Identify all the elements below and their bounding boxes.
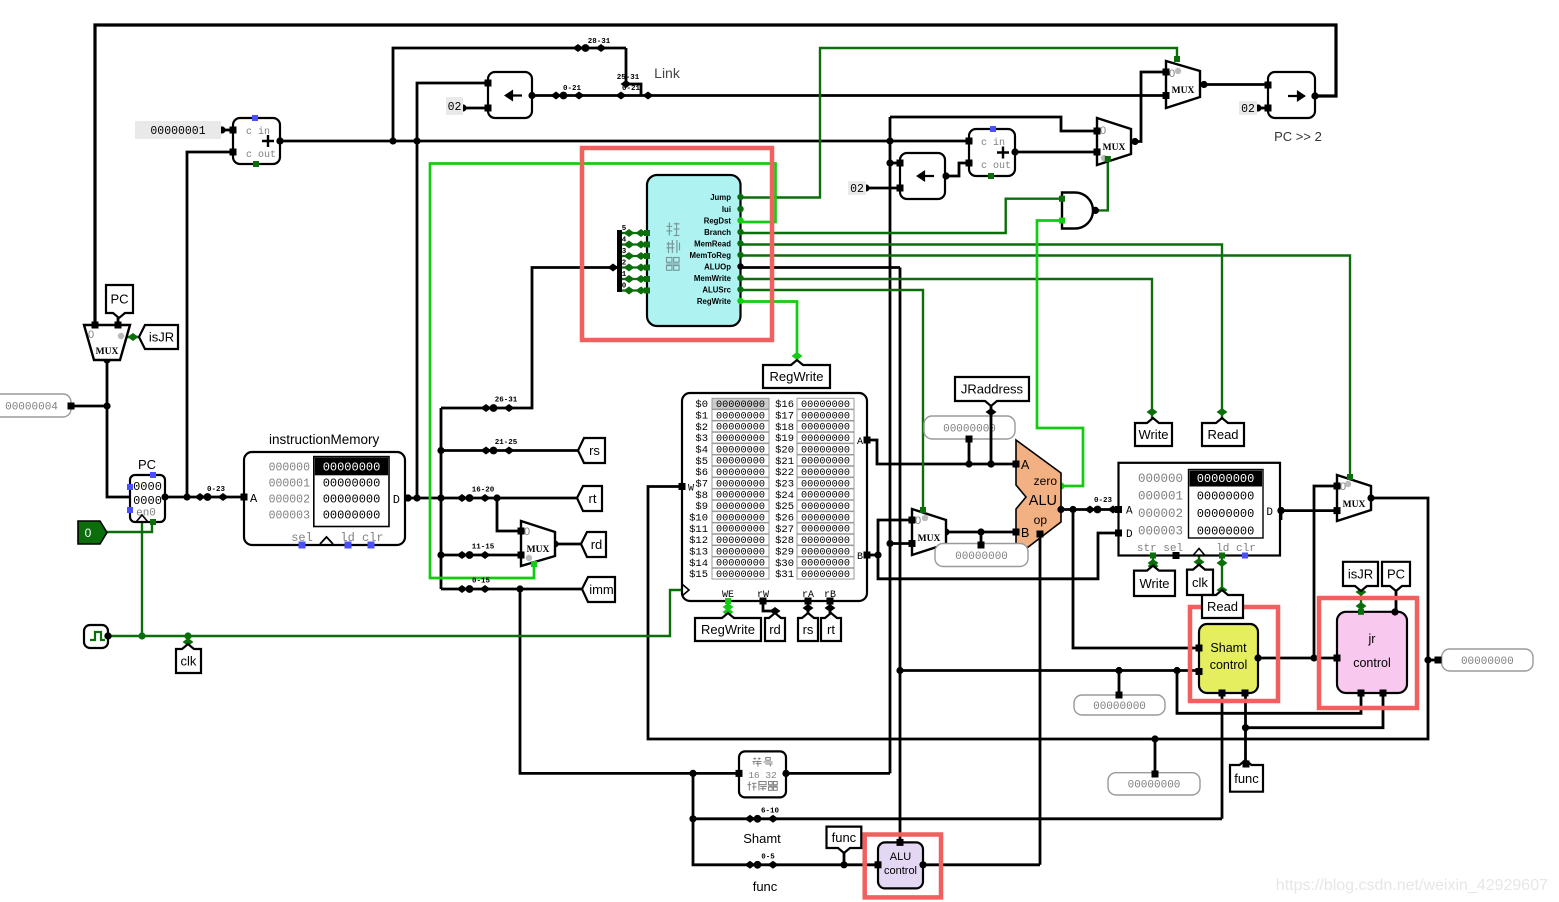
svg-text:rd: rd	[769, 622, 781, 637]
svg-text:control: control	[884, 865, 917, 877]
svg-text:B: B	[1021, 526, 1029, 540]
svg-text:$9: $9	[695, 501, 708, 513]
svg-text:c in: c in	[981, 137, 1005, 149]
svg-text:imm: imm	[589, 582, 614, 597]
svg-text:000000: 000000	[1138, 472, 1183, 486]
svg-text:21-25: 21-25	[495, 439, 518, 447]
svg-text:$24: $24	[775, 490, 794, 502]
svg-text:000003: 000003	[1138, 525, 1183, 539]
svg-text:00000000: 00000000	[1197, 507, 1255, 521]
svg-text:0-15: 0-15	[472, 578, 491, 586]
svg-text:https://blog.csdn.net/weixin_4: https://blog.csdn.net/weixin_42929607	[1276, 877, 1548, 894]
svg-text:Write: Write	[1139, 576, 1169, 591]
svg-text:W: W	[688, 484, 694, 495]
svg-text:$12: $12	[689, 535, 708, 547]
svg-text:000001: 000001	[269, 478, 311, 491]
svg-text:000000: 000000	[269, 462, 311, 475]
svg-text:$26: $26	[775, 513, 794, 525]
svg-text:0: 0	[524, 526, 530, 538]
svg-text:c in: c in	[246, 126, 270, 138]
svg-text:00000004: 00000004	[5, 401, 58, 413]
svg-text:0: 0	[1169, 68, 1175, 80]
svg-text:MUX: MUX	[527, 545, 550, 555]
svg-text:rd: rd	[591, 537, 603, 552]
svg-text:MUX: MUX	[1172, 86, 1195, 96]
svg-text:op: op	[1034, 513, 1048, 527]
svg-text:00000000: 00000000	[943, 423, 996, 435]
svg-text:MemWrite: MemWrite	[694, 274, 732, 283]
svg-text:ALU: ALU	[1029, 493, 1057, 509]
svg-text:$20: $20	[775, 445, 794, 457]
svg-text:00000000: 00000000	[1197, 472, 1255, 486]
svg-text:$27: $27	[775, 524, 794, 536]
svg-text:6-10: 6-10	[761, 808, 780, 816]
svg-text:RegWrite: RegWrite	[770, 369, 824, 384]
svg-text:25-31: 25-31	[617, 74, 640, 82]
svg-text:00000000: 00000000	[1461, 656, 1514, 668]
svg-text:$30: $30	[775, 558, 794, 570]
svg-text:0: 0	[915, 515, 921, 527]
svg-text:c out: c out	[981, 161, 1011, 172]
svg-text:isJR: isJR	[149, 330, 174, 345]
svg-text:0000: 0000	[133, 480, 162, 494]
svg-text:02: 02	[850, 183, 864, 196]
svg-text:0-23: 0-23	[207, 486, 226, 494]
svg-text:$3: $3	[695, 433, 708, 445]
svg-text:000002: 000002	[269, 494, 311, 507]
svg-text:B: B	[857, 552, 863, 563]
svg-text:PC: PC	[138, 457, 156, 472]
svg-text:$8: $8	[695, 490, 708, 502]
svg-text:02: 02	[448, 101, 462, 114]
svg-text:$6: $6	[695, 467, 708, 479]
svg-text:ALUSrc: ALUSrc	[702, 286, 731, 295]
svg-text:PC: PC	[1387, 567, 1405, 582]
svg-text:$25: $25	[775, 501, 794, 513]
svg-text:jr: jr	[1368, 632, 1376, 646]
svg-text:c out: c out	[246, 150, 276, 161]
svg-text:Jump: Jump	[710, 193, 731, 202]
svg-text:00000000: 00000000	[716, 570, 765, 581]
svg-text:$15: $15	[689, 569, 708, 581]
svg-text:$1: $1	[695, 411, 708, 423]
svg-text:control: control	[1353, 656, 1391, 670]
svg-text:$2: $2	[695, 422, 708, 434]
svg-text:0-5: 0-5	[761, 854, 775, 862]
svg-text:$14: $14	[689, 558, 708, 570]
svg-text:16 32: 16 32	[748, 770, 777, 781]
svg-text:000002: 000002	[1138, 507, 1183, 521]
svg-text:JRaddress: JRaddress	[961, 382, 1024, 397]
svg-text:clk: clk	[181, 654, 197, 669]
svg-text:0000: 0000	[133, 494, 162, 508]
svg-text:MUX: MUX	[918, 534, 941, 544]
svg-text:RegWrite: RegWrite	[697, 297, 732, 306]
svg-text:28-31: 28-31	[588, 38, 611, 46]
svg-text:Branch: Branch	[704, 228, 731, 237]
svg-text:4: 4	[622, 237, 627, 245]
svg-text:00000000: 00000000	[1197, 490, 1255, 504]
svg-text:clk: clk	[1192, 575, 1208, 590]
svg-text:RegWrite: RegWrite	[701, 622, 755, 637]
svg-text:func: func	[832, 830, 857, 845]
svg-text:$7: $7	[695, 479, 708, 491]
svg-text:$23: $23	[775, 479, 794, 491]
svg-text:Shamt: Shamt	[743, 831, 781, 846]
svg-text:rs: rs	[589, 443, 600, 458]
svg-text:$29: $29	[775, 546, 794, 558]
svg-text:26-31: 26-31	[495, 397, 518, 405]
svg-text:3: 3	[622, 248, 627, 256]
svg-text:00000000: 00000000	[801, 570, 850, 581]
svg-text:rs: rs	[803, 622, 814, 637]
svg-text:$18: $18	[775, 422, 794, 434]
svg-text:$4: $4	[695, 445, 708, 457]
svg-text:A: A	[1126, 506, 1133, 518]
svg-text:$17: $17	[775, 411, 794, 423]
svg-text:MUX: MUX	[1343, 500, 1366, 510]
svg-text:$28: $28	[775, 535, 794, 547]
svg-text:MemRead: MemRead	[694, 240, 731, 249]
svg-text:D: D	[1266, 507, 1273, 519]
svg-text:00000000: 00000000	[323, 477, 381, 491]
svg-text:1: 1	[622, 271, 627, 279]
svg-text:2: 2	[622, 260, 627, 268]
svg-text:zero: zero	[1034, 474, 1058, 488]
svg-text:$10: $10	[689, 513, 708, 525]
svg-text:Read: Read	[1207, 427, 1238, 442]
svg-text:D: D	[393, 493, 400, 507]
svg-text:00000000: 00000000	[323, 509, 381, 523]
svg-text:02: 02	[1241, 103, 1255, 116]
svg-text:000001: 000001	[1138, 490, 1183, 504]
svg-text:ALU: ALU	[890, 851, 911, 863]
svg-text:MUX: MUX	[1103, 143, 1126, 153]
svg-text:D: D	[1126, 529, 1133, 541]
svg-text:$0: $0	[695, 399, 708, 411]
svg-text:ALUOp: ALUOp	[704, 263, 731, 272]
svg-text:func: func	[753, 879, 778, 894]
svg-text:0: 0	[88, 329, 94, 341]
svg-text:00000000: 00000000	[1197, 525, 1255, 539]
svg-text:00000000: 00000000	[323, 461, 381, 475]
svg-text:$21: $21	[775, 456, 794, 468]
svg-text:MUX: MUX	[96, 347, 119, 357]
svg-text:$13: $13	[689, 546, 708, 558]
svg-text:rt: rt	[827, 622, 835, 637]
svg-text:00000000: 00000000	[1093, 701, 1146, 713]
svg-text:instructionMemory: instructionMemory	[269, 432, 380, 447]
svg-text:$31: $31	[775, 569, 794, 581]
svg-text:00000000: 00000000	[323, 493, 381, 507]
svg-text:00000000: 00000000	[1128, 780, 1181, 792]
svg-text:$19: $19	[775, 433, 794, 445]
svg-text:Write: Write	[1138, 427, 1168, 442]
svg-text:11-15: 11-15	[472, 544, 495, 552]
svg-text:Shamt: Shamt	[1210, 641, 1247, 655]
svg-text:0: 0	[622, 283, 627, 291]
svg-text:A: A	[1021, 458, 1030, 472]
svg-text:func: func	[1234, 771, 1259, 786]
svg-text:isJR: isJR	[1348, 567, 1373, 582]
svg-text:PC: PC	[110, 292, 128, 307]
svg-text:0-21: 0-21	[563, 85, 582, 93]
svg-text:lui: lui	[722, 205, 731, 214]
svg-text:0: 0	[85, 526, 92, 540]
svg-text:RegDst: RegDst	[704, 217, 732, 226]
svg-text:$11: $11	[689, 524, 708, 536]
svg-text:control: control	[1210, 658, 1248, 672]
svg-text:PC >> 2: PC >> 2	[1274, 129, 1322, 144]
svg-text:0-23: 0-23	[1094, 497, 1113, 505]
svg-text:$22: $22	[775, 467, 794, 479]
svg-text:Read: Read	[1207, 599, 1238, 614]
svg-text:$5: $5	[695, 456, 708, 468]
svg-text:00000000: 00000000	[955, 551, 1008, 563]
svg-text:$16: $16	[775, 399, 794, 411]
svg-text:A: A	[250, 492, 258, 506]
svg-text:rt: rt	[589, 491, 597, 506]
svg-text:5: 5	[622, 225, 627, 233]
svg-text:MemToReg: MemToReg	[690, 251, 732, 260]
svg-text:A: A	[857, 437, 863, 448]
svg-text:16-20: 16-20	[472, 487, 495, 495]
svg-text:00000001: 00000001	[150, 125, 205, 138]
svg-text:0: 0	[1100, 125, 1106, 137]
svg-text:000003: 000003	[269, 510, 311, 523]
svg-text:Link: Link	[654, 65, 681, 81]
svg-text:0-21: 0-21	[622, 85, 641, 93]
